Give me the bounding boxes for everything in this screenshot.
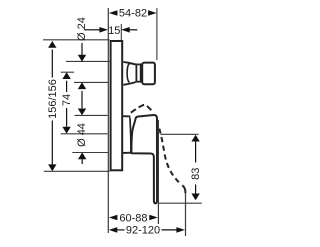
ext cone centerline	[61, 133, 108, 135]
ext line dashed tip projection (92-120 right ref)	[185, 189, 187, 236]
cone (cartridge escutcheon) top edge	[123, 115, 130, 117]
ext plate bottom	[44, 170, 110, 172]
ext stub centerline	[61, 71, 74, 73]
dimension Ø44	[76, 109, 88, 165]
svg-text:15: 15	[108, 25, 120, 37]
svg-text:Ø 24: Ø 24	[76, 17, 88, 41]
ext plate top	[43, 39, 110, 41]
svg-text:74: 74	[61, 94, 73, 106]
handle grip + lever (closed position)	[131, 115, 157, 203]
ext cone top	[75, 114, 108, 116]
cone front edge	[130, 118, 131, 153]
dimension 156/156	[47, 41, 59, 171]
dimension 74	[61, 72, 73, 133]
dashed lever tip curl	[182, 185, 185, 193]
escutcheon plate 156x156 (edge view)	[111, 41, 123, 170]
svg-text:156/156: 156/156	[47, 79, 59, 119]
dimension 54-82	[109, 7, 157, 19]
spout stub ring	[136, 64, 140, 81]
dimension 60-88	[109, 212, 158, 224]
ext line lever outer face (60-88 right ref)	[157, 120, 159, 224]
spout stub body Ø24	[142, 63, 155, 85]
ext line 54-82 right (stub end)	[156, 8, 158, 60]
svg-text:92-120: 92-120	[126, 225, 160, 237]
dashed cap arc (open position)	[131, 105, 153, 113]
cone bottom edge	[123, 152, 131, 154]
svg-text:54-82: 54-82	[119, 7, 147, 19]
svg-text:83: 83	[190, 168, 202, 180]
ext line 83 bottom / lever tip level	[158, 202, 201, 204]
dimension 83	[190, 135, 202, 200]
ext line 83 top	[161, 133, 199, 135]
dimension Ø24	[76, 17, 88, 108]
ext stub top	[66, 60, 110, 62]
wall line	[107, 8, 109, 233]
ext cone bottom	[72, 152, 108, 154]
svg-text:Ø 44: Ø 44	[76, 123, 88, 147]
svg-text:60-88: 60-88	[119, 212, 147, 224]
ext stub bottom	[74, 81, 109, 83]
spout stub bulge	[123, 62, 135, 65]
ext line plate front (15 dim right ref)	[120, 24, 122, 40]
dimension 92-120	[109, 225, 185, 237]
dimension 15	[84, 25, 137, 37]
dashed lever (open position)	[159, 129, 180, 184]
